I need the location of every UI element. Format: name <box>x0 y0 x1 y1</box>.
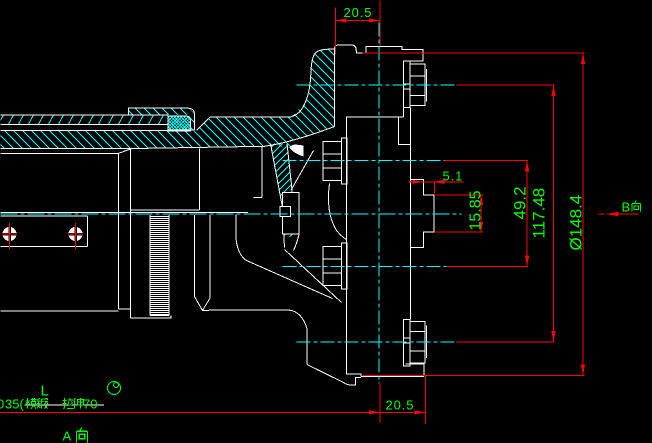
glyph xiang of B-view <box>632 201 641 212</box>
dia148.4 arrows <box>581 53 585 376</box>
dim49.2 bottom ext <box>447 266 529 268</box>
yoke lower ear edge <box>285 250 342 303</box>
balance plate bottom <box>1 246 88 248</box>
hatch: seal cap <box>129 39 195 204</box>
dim117.48 dim line <box>553 85 555 342</box>
svg-text:70: 70 <box>83 397 97 412</box>
spline left edge <box>149 215 151 316</box>
spline right edge <box>168 215 170 316</box>
svg-text:15.85: 15.85 <box>468 190 485 230</box>
seal crosshatch <box>168 91 191 157</box>
flange hub back face <box>346 117 361 377</box>
hub face vertical below center <box>209 215 211 298</box>
yoke bottom vertical <box>306 329 308 365</box>
far bolt top: nut chamfer lines <box>410 76 425 95</box>
far bolt top: nut <box>410 64 425 106</box>
svg-text:35(: 35( <box>5 397 24 412</box>
seal outline <box>168 116 190 131</box>
svg-text:0: 0 <box>0 397 4 412</box>
mid bolt lower: chamfer lines <box>323 259 342 273</box>
tube wall inner line <box>1 124 169 126</box>
sleeve chamfer right of cap <box>197 117 292 131</box>
tube bottom silhouette <box>1 310 119 312</box>
seal cap outline <box>129 108 195 130</box>
glyph xiang of A-view <box>77 428 88 443</box>
sleeve band bottom line <box>1 146 265 148</box>
mid bolt centerline lower <box>283 266 447 268</box>
flange vertical centerline <box>378 23 380 384</box>
svg-text:B: B <box>622 200 631 215</box>
far bolt bottom: shank lines <box>404 338 410 343</box>
spline bottom <box>150 315 169 317</box>
yoke window inner curve lower <box>236 215 333 299</box>
far bolt bottom: tip <box>426 326 428 358</box>
centerline silhouette white <box>1 212 248 214</box>
flange hub top step <box>346 107 410 144</box>
plug weld bolt right <box>68 223 83 249</box>
sleeve lower outer line with chamfer <box>1 149 133 154</box>
svg-text:20.5: 20.5 <box>386 398 415 413</box>
far bolt top: shank lines <box>404 84 410 89</box>
yoke bottom diagonal <box>307 365 361 385</box>
svg-text:49.2: 49.2 <box>511 186 530 219</box>
flange left face <box>334 49 336 127</box>
bearing cup <box>283 193 300 235</box>
dia148.4 bottom ext <box>363 374 585 376</box>
dim5.1 arrows <box>412 180 444 184</box>
sleeve end ring inner vertical <box>130 149 132 318</box>
dim 20.5 top ext right <box>379 1 381 46</box>
bore step horizontal <box>254 197 263 199</box>
pilot boss outline <box>411 180 434 248</box>
glyph mo (mould) <box>26 398 37 409</box>
roundness symbol <box>108 382 121 395</box>
hatch: yoke arm <box>261 0 335 227</box>
plug weld bolt left <box>2 223 17 249</box>
sleeve bottom under spline <box>131 316 171 319</box>
yoke arm outer curve <box>292 49 335 116</box>
mid bolt lower: washer <box>342 243 348 289</box>
far bolt bottom: nut chamfer lines <box>410 332 425 351</box>
mid bolt upper: hex head <box>323 142 342 181</box>
dim15.85 dim line <box>480 195 482 232</box>
shaft groove left vertical <box>194 215 196 297</box>
dim5.1 ext <box>433 182 435 194</box>
sleeve end ring step <box>119 308 131 310</box>
dim 20.5 top ext left <box>334 8 336 55</box>
shaft groove V <box>195 297 211 311</box>
balance plate top edge <box>1 215 88 217</box>
bore step vertical <box>261 147 263 198</box>
glyph shen (stretch) <box>74 398 84 409</box>
far bolt bottom: washer <box>404 320 410 367</box>
hatch: sleeve solid right section <box>197 17 292 247</box>
dim15.85 top ext <box>435 194 483 196</box>
mid bolt centerline upper <box>283 160 445 162</box>
far bolt bottom: nut <box>410 322 425 364</box>
balance plate right edge <box>87 216 89 247</box>
dim5.1 line <box>409 181 464 183</box>
dim15.85 bottom ext <box>435 231 483 233</box>
ear left edge <box>271 144 285 248</box>
CJK hand-drawn glyphs <box>26 201 641 443</box>
yoke window right curve <box>328 184 346 240</box>
dim15.85 arrows <box>479 195 483 232</box>
flange bottom rim <box>361 364 424 377</box>
flange top profile <box>335 45 424 61</box>
svg-text:Ø148.4: Ø148.4 <box>567 195 586 251</box>
bottom dim verticals <box>380 376 426 424</box>
main centerline <box>1 213 462 215</box>
dim117.48 arrows <box>551 85 555 342</box>
svg-text:L: L <box>41 383 49 400</box>
glyph duan (forge) <box>37 398 48 409</box>
centerlines cyan <box>1 23 462 384</box>
sleeve end ring outer vertical <box>118 153 120 308</box>
bottom long red line with dim 20.5 <box>1 411 426 413</box>
svg-text:117.48: 117.48 <box>530 188 549 239</box>
yoke window edge upper <box>291 151 314 191</box>
dim117.48 top ext <box>457 84 555 86</box>
bore end vertical <box>199 149 201 210</box>
ear right edge lower <box>294 235 300 251</box>
strike line through material text <box>25 404 105 406</box>
svg-text:5.1: 5.1 <box>443 169 464 184</box>
spline stripes <box>150 217 169 315</box>
dim49.2 arrows <box>525 161 529 267</box>
upper bolt centerline <box>297 84 457 86</box>
dim49.2 top ext <box>445 160 529 162</box>
hatch: tube wall <box>1 0 169 443</box>
hatch: bearing ear strip <box>271 112 300 271</box>
dim117.48 bottom ext <box>457 341 555 343</box>
sleeve bore top line <box>1 129 169 131</box>
bottom dim arrows <box>369 410 426 414</box>
bore line above centerline <box>131 209 200 211</box>
glyph la (draw) <box>63 398 74 409</box>
mid bolt upper: chamfer lines <box>323 154 342 168</box>
svg-text:20.5: 20.5 <box>344 5 373 20</box>
B view arrow <box>599 213 639 215</box>
far bolt top: tip <box>426 69 428 101</box>
flange front face <box>410 108 412 320</box>
lower bolt centerline <box>297 341 457 343</box>
mid bolt lower: hex head <box>323 247 342 286</box>
dim 20.5 top arrows <box>335 18 380 22</box>
cup snap ring groove <box>280 207 291 217</box>
svg-text:A: A <box>63 429 72 443</box>
dia148.4 dim line <box>582 53 584 376</box>
dia148.4 top ext <box>363 52 585 54</box>
dim 20.5 top line <box>335 20 380 22</box>
ear right edge upper <box>287 144 292 190</box>
weld blob <box>290 145 304 157</box>
far bolt top: washer <box>404 61 410 108</box>
dim49.2 dim line <box>526 161 528 267</box>
hub bottom surface <box>203 310 308 328</box>
tube outer top line <box>1 114 169 116</box>
mid bolt upper: washer <box>342 138 348 184</box>
yoke arm inner curve <box>265 127 335 147</box>
hatch: sleeve wall band <box>1 0 200 353</box>
